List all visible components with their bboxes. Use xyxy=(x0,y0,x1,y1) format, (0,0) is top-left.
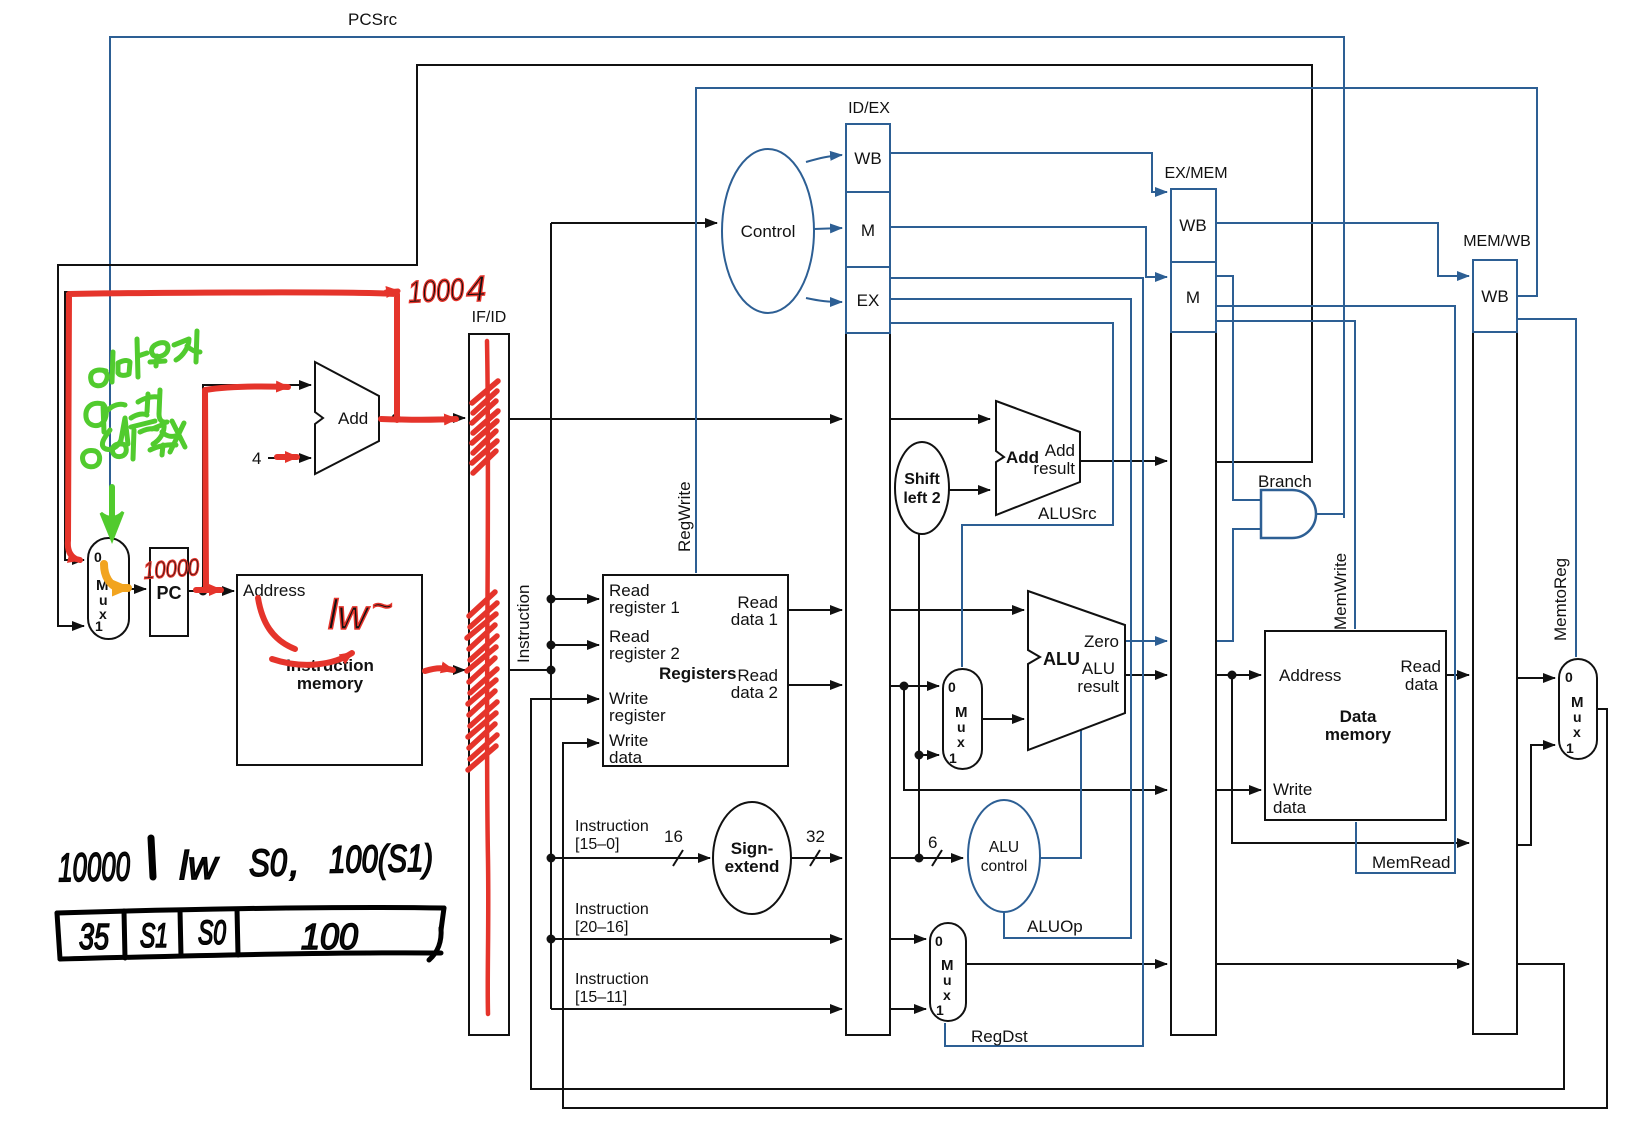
svg-text:lw: lw xyxy=(179,844,221,889)
green arrow pointing at mux xyxy=(101,487,123,540)
wire write register number EX/MEM to MEM/WB xyxy=(1216,963,1469,965)
svg-text:[20–16]: [20–16] xyxy=(575,919,628,936)
svg-text:WB: WB xyxy=(1179,216,1206,235)
wire ALU result bypass around data memory to MEM/WB xyxy=(1232,675,1469,843)
svg-text:MEM/WB: MEM/WB xyxy=(1463,233,1531,250)
ID/EX WB box xyxy=(846,124,890,192)
svg-text:result: result xyxy=(1033,459,1075,478)
svg-text:Write: Write xyxy=(1273,780,1312,799)
svg-text:Data: Data xyxy=(1340,707,1377,726)
control unit ellipse xyxy=(722,149,814,313)
red scribble on IF/ID lower part xyxy=(467,592,497,770)
svg-text:100(S1): 100(S1) xyxy=(329,838,434,882)
svg-text:IF/ID: IF/ID xyxy=(472,309,507,326)
svg-text:ALU: ALU xyxy=(1082,659,1115,678)
wire sign-extend branch to ALUSrc mux input 1 xyxy=(919,754,939,756)
wire M signals ID/EX to EX/MEM xyxy=(890,227,1167,277)
svg-text:16: 16 xyxy=(664,827,683,846)
red arrow into mux input 0 xyxy=(68,540,80,560)
wire MemtoReg from MEM/WB WB to MemtoReg mux select xyxy=(1518,319,1576,657)
wire Add output to IF/ID xyxy=(379,417,465,419)
wire instruction [20-16] to ID/EX xyxy=(551,938,842,940)
EX/MEM WB box xyxy=(1171,189,1216,262)
MEM/WB WB box xyxy=(1473,260,1517,332)
svg-text:Instruction: Instruction xyxy=(575,901,649,918)
svg-text:Add: Add xyxy=(1045,441,1075,460)
svg-text:lw: lw xyxy=(328,591,370,638)
bus width slashes xyxy=(673,850,942,866)
wire instruction [15-0] to Sign-extend xyxy=(551,857,710,859)
svg-text:Address: Address xyxy=(1279,666,1341,685)
svg-text:data: data xyxy=(1405,675,1439,694)
wire WB signals EX/MEM to MEM/WB xyxy=(1216,223,1469,276)
wire instruction [20-16] from ID/EX to RegDst mux input 0 xyxy=(890,938,926,940)
svg-text:data 1: data 1 xyxy=(731,610,778,629)
svg-text:PC: PC xyxy=(156,583,181,603)
svg-text:register 1: register 1 xyxy=(609,598,680,617)
wire Read data from Data memory to MEM/WB xyxy=(1446,674,1469,676)
svg-text:register 2: register 2 xyxy=(609,644,680,663)
svg-text:Read: Read xyxy=(1400,657,1441,676)
EX/MEM M box xyxy=(1171,262,1216,332)
wire Sign-extend to ID/EX xyxy=(791,857,842,859)
wire mux output to PC xyxy=(129,588,146,590)
svg-text:u: u xyxy=(1573,709,1582,725)
svg-text:memory: memory xyxy=(1325,725,1392,744)
wire Read data 1 to ID/EX xyxy=(788,609,842,611)
svg-text:result: result xyxy=(1077,677,1119,696)
svg-text:1: 1 xyxy=(95,618,103,634)
svg-text:0: 0 xyxy=(935,933,943,949)
svg-text:control: control xyxy=(981,858,1028,875)
svg-text:RegDst: RegDst xyxy=(971,1027,1028,1046)
wire branch target from EX/MEM to mux input 1 xyxy=(58,65,1312,626)
svg-text:M: M xyxy=(861,221,875,240)
svg-text:[15–0]: [15–0] xyxy=(575,836,619,853)
wire constant 4 to Add bottom input xyxy=(268,457,311,459)
svg-text:0: 0 xyxy=(948,679,956,695)
svg-text:ALUSrc: ALUSrc xyxy=(1038,504,1097,523)
svg-text:35: 35 xyxy=(79,916,110,957)
wire instruction to Read register 2 xyxy=(551,644,599,646)
wire PC+4 from ID/EX to second Add xyxy=(890,418,990,420)
handwritten field values 35 S1 S0 100 xyxy=(79,914,358,957)
red scribble on IF/ID top (instruction fetched) xyxy=(467,381,498,770)
svg-text:Sign-: Sign- xyxy=(731,839,774,858)
svg-text:extend: extend xyxy=(725,857,780,876)
black handwritten instruction line: 10000 | lw S0, 100(S1) xyxy=(58,838,434,891)
svg-text:Instruction: Instruction xyxy=(575,971,649,988)
green handwritten Korean note line 2 xyxy=(86,390,167,449)
wire sign-extend value from ID/EX to ALU control xyxy=(890,857,963,859)
svg-text:1: 1 xyxy=(936,1002,944,1018)
ellipse Sign-extend xyxy=(713,802,791,914)
wire ALU result from EX/MEM to Data memory Address xyxy=(1216,674,1261,676)
component text labels xyxy=(741,149,1509,875)
svg-text:left 2: left 2 xyxy=(903,490,940,507)
svg-text:10000: 10000 xyxy=(58,845,131,890)
register PC xyxy=(150,548,188,636)
wire instruction bus from IF/ID xyxy=(509,669,551,671)
black unit labels xyxy=(156,409,1441,1006)
pipeline register IF/ID xyxy=(469,334,509,1035)
wire instruction memory to IF/ID xyxy=(422,669,465,671)
svg-text:0: 0 xyxy=(1565,669,1573,685)
svg-text:1: 1 xyxy=(1566,740,1574,756)
wire Read data 2 down to EX/MEM write data row xyxy=(904,686,1167,790)
ID/EX EX box xyxy=(846,267,890,333)
wire instruction [15-11] from ID/EX to RegDst mux input 1 xyxy=(890,1008,926,1010)
red handwritten 10004 xyxy=(407,268,487,313)
svg-text:S0: S0 xyxy=(198,914,226,952)
wire Read data 1 from ID/EX to ALU xyxy=(890,609,1024,611)
wire RegWrite from MEM/WB WB to Registers xyxy=(696,88,1537,573)
pipeline register MEM/WB bar xyxy=(1473,332,1517,1034)
red vertical stroke through IF/ID bar xyxy=(487,341,488,1014)
hand-drawn instruction format box xyxy=(57,907,444,960)
wire ALUSrc mux output to ALU xyxy=(982,718,1024,720)
mux M4 MemtoReg xyxy=(1559,659,1597,759)
svg-text:Control: Control xyxy=(741,222,796,241)
svg-text:Shift: Shift xyxy=(904,471,940,488)
svg-text:u: u xyxy=(957,719,966,735)
wire shift left 2 input vertical xyxy=(918,534,920,858)
wire PC to Add top input xyxy=(203,385,311,591)
wire write register number from MEM/WB back to Write register xyxy=(531,699,1564,1089)
svg-text:,: , xyxy=(289,842,300,884)
red arrowhead at 10004 corner xyxy=(386,291,398,292)
svg-text:~: ~ xyxy=(372,585,393,626)
wire ALU control output to ALU xyxy=(1040,728,1081,858)
wire ALUOp signal from ID/EX EX to ALU control xyxy=(890,299,1131,938)
data memory xyxy=(1265,631,1446,820)
registers file xyxy=(603,575,788,766)
red arrow instruction memory to IF/ID xyxy=(425,668,453,671)
svg-text:x: x xyxy=(957,734,965,750)
svg-text:data: data xyxy=(1273,798,1307,817)
wire MemWrite signal EX/MEM to Data memory top xyxy=(1216,321,1355,629)
pipeline register ID/EX bar xyxy=(846,333,890,1035)
red trace PC up to Add input xyxy=(205,386,288,588)
svg-text:data 2: data 2 xyxy=(731,683,778,702)
svg-text:100: 100 xyxy=(301,916,358,957)
red arrow over constant 4 xyxy=(277,454,297,460)
wire ALUSrc signal from ID/EX EX to ALUSrc mux xyxy=(890,323,1113,667)
wire instruction [15-11] to ID/EX xyxy=(551,1008,842,1010)
green handwritten Korean note line 1 xyxy=(91,331,200,386)
wire Control to ID/EX M xyxy=(814,228,842,229)
svg-text:ID/EX: ID/EX xyxy=(848,100,890,117)
svg-text:Registers: Registers xyxy=(659,664,736,683)
svg-text:x: x xyxy=(943,987,951,1003)
svg-text:4: 4 xyxy=(252,449,261,468)
ALU control ellipse xyxy=(968,800,1040,912)
handwritten separator bar xyxy=(151,838,153,877)
instruction memory xyxy=(237,575,422,765)
mux M3 RegDst xyxy=(930,923,966,1021)
wire PCSrc from branch AND gate to PC mux select xyxy=(110,37,1344,540)
svg-text:Branch: Branch xyxy=(1258,472,1312,491)
mux internal labels xyxy=(94,549,1584,1018)
wire MemRead signal EX/MEM to Data memory bottom xyxy=(1216,306,1455,873)
red arrow PC to Address xyxy=(196,587,221,593)
svg-text:Add: Add xyxy=(338,409,368,428)
wire instruction to Control xyxy=(551,222,717,224)
svg-text:6: 6 xyxy=(928,833,937,852)
svg-text:x: x xyxy=(1573,724,1581,740)
svg-text:4: 4 xyxy=(465,268,487,310)
red swoosh from Address to instruction memory label xyxy=(258,598,352,665)
wire write data from EX/MEM to Data memory xyxy=(1216,789,1261,791)
ID/EX M box xyxy=(846,192,890,267)
red trace PC+4 value 10004 back to mux xyxy=(68,292,397,540)
svg-text:S1: S1 xyxy=(140,917,168,955)
slash 32-bit xyxy=(810,850,820,866)
wire PC to instruction memory Address xyxy=(188,590,234,592)
wire Read data from MEM/WB to MemtoReg mux input 0 xyxy=(1517,677,1555,679)
svg-text:1: 1 xyxy=(949,750,957,766)
svg-text:10000: 10000 xyxy=(142,554,200,585)
pipeline register EX/MEM bar xyxy=(1171,332,1216,1035)
svg-text:data: data xyxy=(609,748,643,767)
red trace Add output to IF/ID xyxy=(381,416,456,423)
svg-text:WB: WB xyxy=(1481,287,1508,306)
wire shift left 2 to Add bottom input xyxy=(949,489,990,491)
wire Add result to EX/MEM xyxy=(1080,460,1167,462)
wire RegDst mux output to EX/MEM xyxy=(966,963,1167,965)
svg-text:Instruction: Instruction xyxy=(575,818,649,835)
wire Branch signal EX/MEM to AND gate xyxy=(1216,276,1261,500)
blue signal labels xyxy=(348,10,1570,1046)
svg-text:MemRead: MemRead xyxy=(1372,853,1450,872)
mux M2 ALUSrc xyxy=(943,669,982,769)
wire Zero from EX/MEM to AND gate input xyxy=(1216,529,1261,641)
wire Control to ID/EX EX xyxy=(806,298,842,302)
svg-text:u: u xyxy=(943,972,952,988)
wire AND gate output to PCSrc xyxy=(1316,513,1344,515)
AND gate Branch xyxy=(1261,490,1316,538)
orange arrow mux to PC xyxy=(104,564,128,588)
wire PC+4 feedback from Add to mux input 0 xyxy=(65,292,396,560)
svg-text:PCSrc: PCSrc xyxy=(348,10,398,29)
svg-text:EX/MEM: EX/MEM xyxy=(1164,165,1227,182)
svg-text:RegWrite: RegWrite xyxy=(675,481,694,552)
slash 16-bit xyxy=(673,850,683,866)
adder Add (PC+4) xyxy=(315,362,379,474)
svg-text:Instruction: Instruction xyxy=(514,585,533,663)
ALU xyxy=(1028,591,1125,750)
wire Read data 2 to ID/EX xyxy=(788,684,842,686)
svg-text:Zero: Zero xyxy=(1084,632,1119,651)
slash 6-bit xyxy=(932,850,942,866)
svg-text:EX: EX xyxy=(857,291,880,310)
wire WB signals ID/EX to EX/MEM xyxy=(890,153,1167,192)
svg-text:32: 32 xyxy=(806,827,825,846)
wire Read data 2 from ID/EX to ALUSrc mux input 0 xyxy=(890,685,939,687)
wire ALU result to EX/MEM xyxy=(1125,674,1167,676)
svg-text:Address: Address xyxy=(243,581,305,600)
svg-text:MemtoReg: MemtoReg xyxy=(1551,558,1570,641)
wire instruction to Read register 1 xyxy=(551,598,599,600)
svg-text:MemWrite: MemWrite xyxy=(1331,553,1350,630)
svg-text:ALU: ALU xyxy=(989,839,1019,856)
wire ALU result from MEM/WB to MemtoReg mux input 1 xyxy=(1517,745,1555,845)
svg-text:register: register xyxy=(609,706,666,725)
wire Control to ID/EX WB xyxy=(806,155,842,162)
wire Zero flag ALU to EX/MEM xyxy=(1125,640,1167,642)
mux M1 PC source xyxy=(88,538,129,639)
svg-text:1000: 1000 xyxy=(407,272,465,310)
green handwritten Korean note line 3 xyxy=(83,421,185,467)
wire PC+4 from IF/ID to ID/EX xyxy=(509,418,842,420)
ellipse Shift left 2 xyxy=(895,442,949,534)
svg-text:WB: WB xyxy=(854,149,881,168)
wire RegDst signal from ID/EX EX to RegDst mux xyxy=(890,278,1143,1046)
svg-text:ALUOp: ALUOp xyxy=(1027,917,1083,936)
svg-text:ALU: ALU xyxy=(1043,649,1080,669)
svg-text:M: M xyxy=(1186,288,1200,307)
wire MemtoReg mux output back to Write data of Registers xyxy=(563,709,1607,1108)
svg-text:memory: memory xyxy=(297,674,364,693)
wire instruction bus vertical xyxy=(550,223,552,1009)
svg-text:[15–11]: [15–11] xyxy=(575,989,627,1006)
adder Add (branch target) xyxy=(996,401,1080,515)
svg-text:S0: S0 xyxy=(249,842,288,885)
